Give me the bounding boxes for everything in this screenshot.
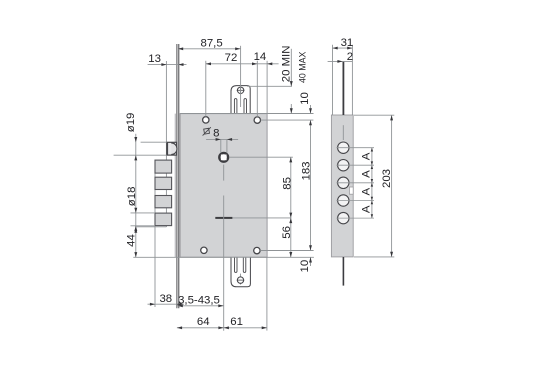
top mounting tab bbox=[231, 86, 250, 114]
dim ø19 bbox=[114, 113, 167, 258]
faceplate strip (side view) bbox=[331, 115, 353, 257]
dim 3,5-43,5 bbox=[178, 294, 224, 307]
wire: strip right extension up bbox=[351, 45, 353, 115]
top tab screw bbox=[237, 86, 245, 94]
fixing hole top-left bbox=[203, 117, 209, 123]
svg-text:ø18: ø18 bbox=[126, 187, 138, 207]
dim A4 label bbox=[361, 205, 373, 213]
faceplate circle 1 bbox=[336, 142, 374, 153]
dim 44 bbox=[125, 227, 166, 257]
bottom mounting tab bbox=[231, 257, 250, 287]
deadbolt 3 bbox=[155, 196, 172, 208]
latch bolt bbox=[167, 142, 177, 155]
dim 72 bbox=[206, 52, 279, 65]
wire: strip left extension up bbox=[332, 45, 334, 115]
svg-text:87,5: 87,5 bbox=[201, 37, 223, 49]
svg-text:10: 10 bbox=[299, 92, 311, 105]
svg-text:A: A bbox=[361, 205, 373, 213]
wire: top-left hole extension up bbox=[205, 61, 207, 117]
wire: keyhole extension line bbox=[232, 217, 291, 219]
dim 56 bbox=[281, 218, 293, 257]
svg-text:3,5-43,5: 3,5-43,5 bbox=[178, 294, 220, 306]
svg-text:A: A bbox=[361, 187, 373, 195]
top tab right slot bbox=[244, 99, 247, 114]
dim 2 bbox=[328, 51, 353, 63]
dim A3 label bbox=[361, 187, 373, 195]
dim 10 (bottom) bbox=[299, 257, 312, 272]
dim 183 bbox=[301, 120, 313, 250]
svg-text:61: 61 bbox=[230, 316, 243, 328]
svg-text:14: 14 bbox=[254, 51, 267, 63]
wire: strip center line above circle 1 bbox=[342, 125, 344, 140]
svg-text:56: 56 bbox=[281, 226, 293, 239]
svg-text:A: A bbox=[361, 170, 373, 178]
svg-text:203: 203 bbox=[381, 169, 393, 188]
dim 85 bbox=[281, 157, 293, 218]
svg-text:ø19: ø19 bbox=[125, 113, 137, 133]
bottom tab right slot bbox=[243, 257, 246, 272]
fixing hole top-right bbox=[254, 117, 260, 123]
dim 87,5 bbox=[178, 37, 240, 50]
wire: bolt-face extension line bbox=[154, 160, 156, 307]
wire: strip top extension right bbox=[354, 114, 394, 116]
spindle hole (square follower) bbox=[219, 153, 228, 162]
wire: spindle center line lower bbox=[223, 196, 225, 331]
svg-text:44: 44 bbox=[125, 234, 137, 247]
svg-text:72: 72 bbox=[225, 52, 238, 64]
dim 10 (top) bbox=[299, 92, 312, 113]
dim 13 bbox=[148, 53, 187, 66]
svg-text:31: 31 bbox=[341, 37, 354, 49]
svg-text:8: 8 bbox=[213, 128, 219, 140]
svg-text:20 MIN: 20 MIN bbox=[281, 46, 293, 83]
dim arrow to body top (left) bbox=[290, 104, 293, 113]
bottom tab left slot bbox=[235, 257, 238, 272]
dim A1 label bbox=[361, 152, 373, 160]
wire: tab center line bbox=[240, 46, 242, 107]
wire: top holes extension right bbox=[261, 119, 314, 121]
svg-text:10: 10 bbox=[299, 260, 311, 273]
wire: spindle center line upper bbox=[223, 165, 225, 181]
deadbolt 4 bbox=[155, 213, 172, 226]
wire: body right edge extension up bbox=[266, 61, 268, 114]
deadbolt 1 bbox=[155, 160, 172, 173]
plate edge line upper bbox=[342, 62, 344, 115]
dim 61 bbox=[224, 316, 267, 329]
dim 31 bbox=[333, 37, 354, 50]
svg-text:2: 2 bbox=[347, 51, 353, 63]
wire: body top edge + extension bbox=[180, 113, 313, 115]
wire: strip bottom extension right bbox=[354, 256, 394, 258]
dim ø18 bbox=[126, 187, 155, 231]
wire: body bottom edge + extensions bbox=[133, 256, 314, 258]
faceplate circle 5 bbox=[336, 212, 374, 223]
svg-text:A: A bbox=[361, 152, 373, 160]
fixing hole bottom-right bbox=[254, 247, 260, 253]
svg-text:183: 183 bbox=[301, 161, 313, 180]
svg-text:85: 85 bbox=[281, 177, 293, 190]
plate edge line lower bbox=[342, 257, 344, 286]
wire: body right edge extension down bbox=[266, 257, 268, 330]
wire: spindle extension line bbox=[229, 156, 293, 158]
dim A2 label bbox=[361, 170, 373, 178]
wire: tab top extension line bbox=[247, 85, 292, 87]
svg-text:13: 13 bbox=[148, 53, 161, 65]
wire: latch-face extension line bbox=[165, 61, 167, 227]
keyhole center dash bbox=[215, 217, 232, 219]
dim 8 bbox=[206, 128, 238, 153]
dim 38 bbox=[148, 293, 185, 306]
wire: faceplate inner line bbox=[174, 114, 176, 258]
dim 14 bbox=[254, 51, 273, 65]
dim 203 bbox=[381, 115, 393, 257]
faceplate circle 4 bbox=[336, 195, 374, 206]
wire: bottom holes extension right bbox=[260, 250, 313, 252]
dim 64 bbox=[177, 316, 224, 329]
wire: top-right hole extension up bbox=[256, 61, 258, 117]
bottom tab screw bbox=[237, 277, 244, 283]
faceplate circle 2 bbox=[336, 160, 374, 171]
fixing hole bottom-left bbox=[201, 247, 207, 253]
svg-text:40 MAX: 40 MAX bbox=[298, 52, 308, 83]
svg-text:64: 64 bbox=[197, 316, 210, 328]
faceplate (edge-on double line) bbox=[177, 44, 179, 308]
bottom tab center tick bbox=[240, 274, 242, 285]
top tab left slot bbox=[234, 99, 237, 114]
svg-text:38: 38 bbox=[159, 293, 172, 305]
dim A chain line bbox=[371, 148, 373, 218]
faceplate notch bbox=[349, 187, 353, 194]
dim 20 MIN / 40 MAX bbox=[281, 46, 308, 87]
deadbolt 2 bbox=[155, 177, 172, 189]
square symbol (8mm follower) bbox=[203, 127, 211, 135]
faceplate circle 3 bbox=[336, 177, 374, 188]
lock body bbox=[180, 114, 267, 258]
